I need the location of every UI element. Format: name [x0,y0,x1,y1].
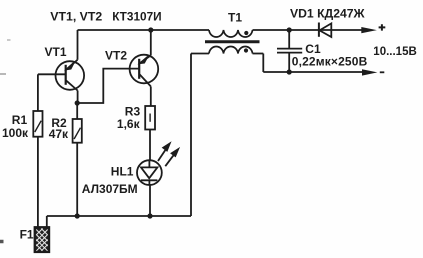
wire VT1 emitter riser [77,30,79,60]
svg-text:R3: R3 [125,104,141,118]
transformer T1 core [205,40,260,43]
scan speck left middle [0,73,6,75]
fuse F1 [35,227,49,251]
wire LED cathode stub [148,180,150,185]
wire VT2 collector drop [150,86,152,106]
transformer T1 primary winding [209,30,253,37]
wire bottom output rail [263,71,363,73]
resistor R1 [33,111,42,137]
svg-text:VT1, VT2: VT1, VT2 [50,10,102,24]
capacitor C1 [277,30,302,72]
resistor R3 [145,106,155,130]
wire R3 bottom to LED [149,130,151,161]
LED HL1 [137,143,179,185]
output arrow plus [361,27,377,33]
wire secondary left drop [190,54,192,217]
wire top rail right segment [253,29,363,31]
svg-text:VD1 КД247Ж: VD1 КД247Ж [290,6,366,20]
svg-text:F1: F1 [20,227,34,241]
wire VT2 emitter riser [150,30,152,55]
resistor R2 [73,119,82,143]
svg-text:VT1: VT1 [45,45,67,59]
plus sign [379,24,386,30]
transformer T1 secondary winding [209,47,253,54]
scan speck bottom left [0,240,4,244]
wire secondary right stub [253,53,264,55]
node junction bottom rail / LED [147,213,152,218]
transistor VT2 [130,55,159,87]
node junction bottom output / C1 [287,69,292,74]
minus sign [380,71,385,73]
svg-text:47к: 47к [49,127,69,141]
node junction top rail / VT2 [148,27,153,32]
svg-text:R1: R1 [12,113,28,127]
svg-text:100к: 100к [2,126,29,140]
svg-text:Т1: Т1 [228,11,242,25]
wire coupling VT1 collector to VT2 base [77,69,139,103]
svg-text:10...15В: 10...15В [373,46,416,58]
wire R1 top [37,74,39,111]
wire top rail left segment [78,29,210,31]
svg-text:0,22мк×250В: 0,22мк×250В [292,55,368,69]
wire R1 bottom to F1 [37,137,39,227]
wire VT1 collector drop [77,91,79,104]
wire LED bottom [149,185,151,216]
node junction VT1 collector / R2 / VT2 base [75,100,80,105]
wire R2 bottom [76,143,78,216]
diode VD1 [319,23,331,38]
svg-text:КТ3107И: КТ3107И [112,10,161,24]
wire F1 right lead [46,216,48,227]
output arrow minus [362,69,377,75]
wire bottom rail [47,215,191,217]
node junction top rail / C1 [287,27,292,32]
svg-text:HL1: HL1 [111,164,134,178]
wire VT1 base [38,73,66,75]
node junction bottom rail / R2 [75,213,80,218]
transistor VT1 [56,60,85,91]
svg-text:1,6к: 1,6к [117,117,141,131]
wire LED anode stub [148,160,150,167]
wire secondary right drop [262,54,264,73]
scan speck top left [7,39,11,41]
wire R2 top [76,103,78,119]
svg-text:VT2: VT2 [105,48,127,62]
wire secondary left stub [191,53,209,55]
svg-text:АЛ307БМ: АЛ307БМ [82,182,138,196]
